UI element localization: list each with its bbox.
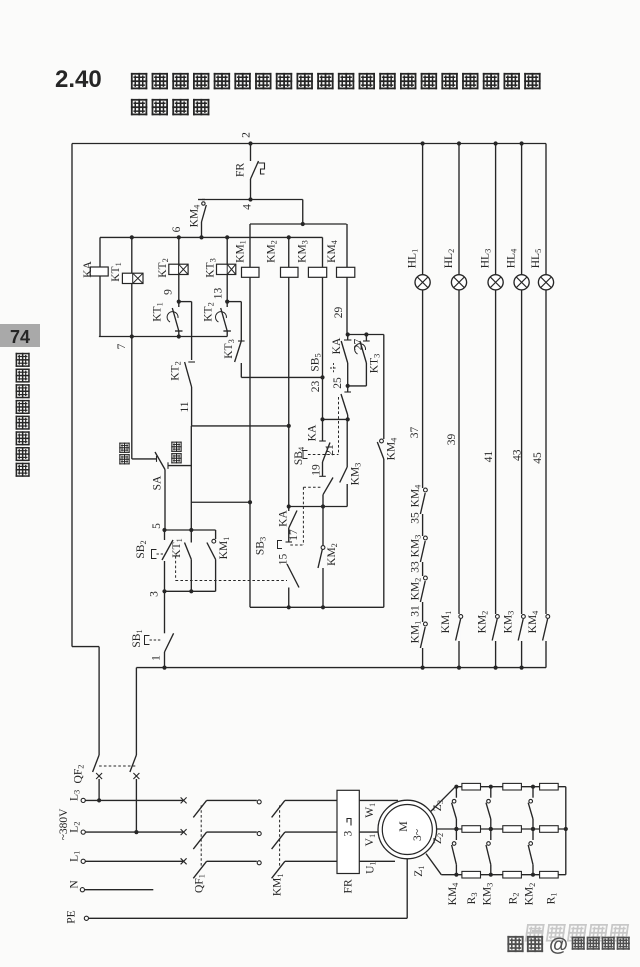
- svg-text:3: 3: [342, 830, 354, 836]
- svg-text:M: M: [396, 821, 410, 832]
- svg-text:SA: SA: [152, 475, 164, 490]
- svg-text:6: 6: [171, 226, 183, 232]
- svg-text:43: 43: [512, 449, 524, 461]
- svg-text:@: @: [549, 934, 568, 956]
- svg-text:KA: KA: [82, 261, 94, 278]
- svg-text:41: 41: [483, 451, 495, 463]
- svg-text:17: 17: [288, 529, 300, 541]
- svg-text:FR: FR: [343, 879, 355, 893]
- svg-text:9: 9: [163, 289, 175, 295]
- svg-text:39: 39: [446, 434, 458, 446]
- svg-text:~380V: ~380V: [58, 808, 70, 840]
- svg-text:35: 35: [410, 512, 422, 524]
- svg-text:13: 13: [213, 288, 225, 300]
- svg-text:2: 2: [241, 132, 253, 138]
- svg-text:23: 23: [310, 381, 322, 393]
- svg-text:37: 37: [409, 427, 421, 439]
- svg-text:2.40: 2.40: [55, 66, 102, 93]
- svg-text:3~: 3~: [412, 829, 424, 841]
- svg-text:5: 5: [151, 523, 163, 529]
- svg-text:15: 15: [278, 554, 290, 566]
- svg-text:7: 7: [116, 343, 128, 349]
- svg-text:29: 29: [333, 307, 345, 319]
- svg-text:21: 21: [324, 444, 336, 456]
- svg-text:KA: KA: [278, 510, 290, 527]
- svg-text:33: 33: [410, 561, 422, 573]
- svg-text:FR: FR: [235, 163, 247, 177]
- svg-text:74: 74: [10, 327, 30, 347]
- svg-text:19: 19: [311, 464, 323, 476]
- svg-text:KA: KA: [331, 337, 343, 354]
- svg-text:N: N: [69, 880, 81, 889]
- svg-text:1: 1: [151, 655, 163, 661]
- svg-text:PE: PE: [66, 910, 78, 923]
- svg-text:25: 25: [332, 377, 344, 389]
- svg-text:31: 31: [410, 605, 422, 617]
- svg-text:4: 4: [242, 204, 254, 210]
- svg-text:3: 3: [149, 591, 161, 597]
- svg-text:45: 45: [532, 452, 544, 464]
- svg-text:KA: KA: [307, 424, 319, 441]
- svg-text:11: 11: [179, 401, 191, 412]
